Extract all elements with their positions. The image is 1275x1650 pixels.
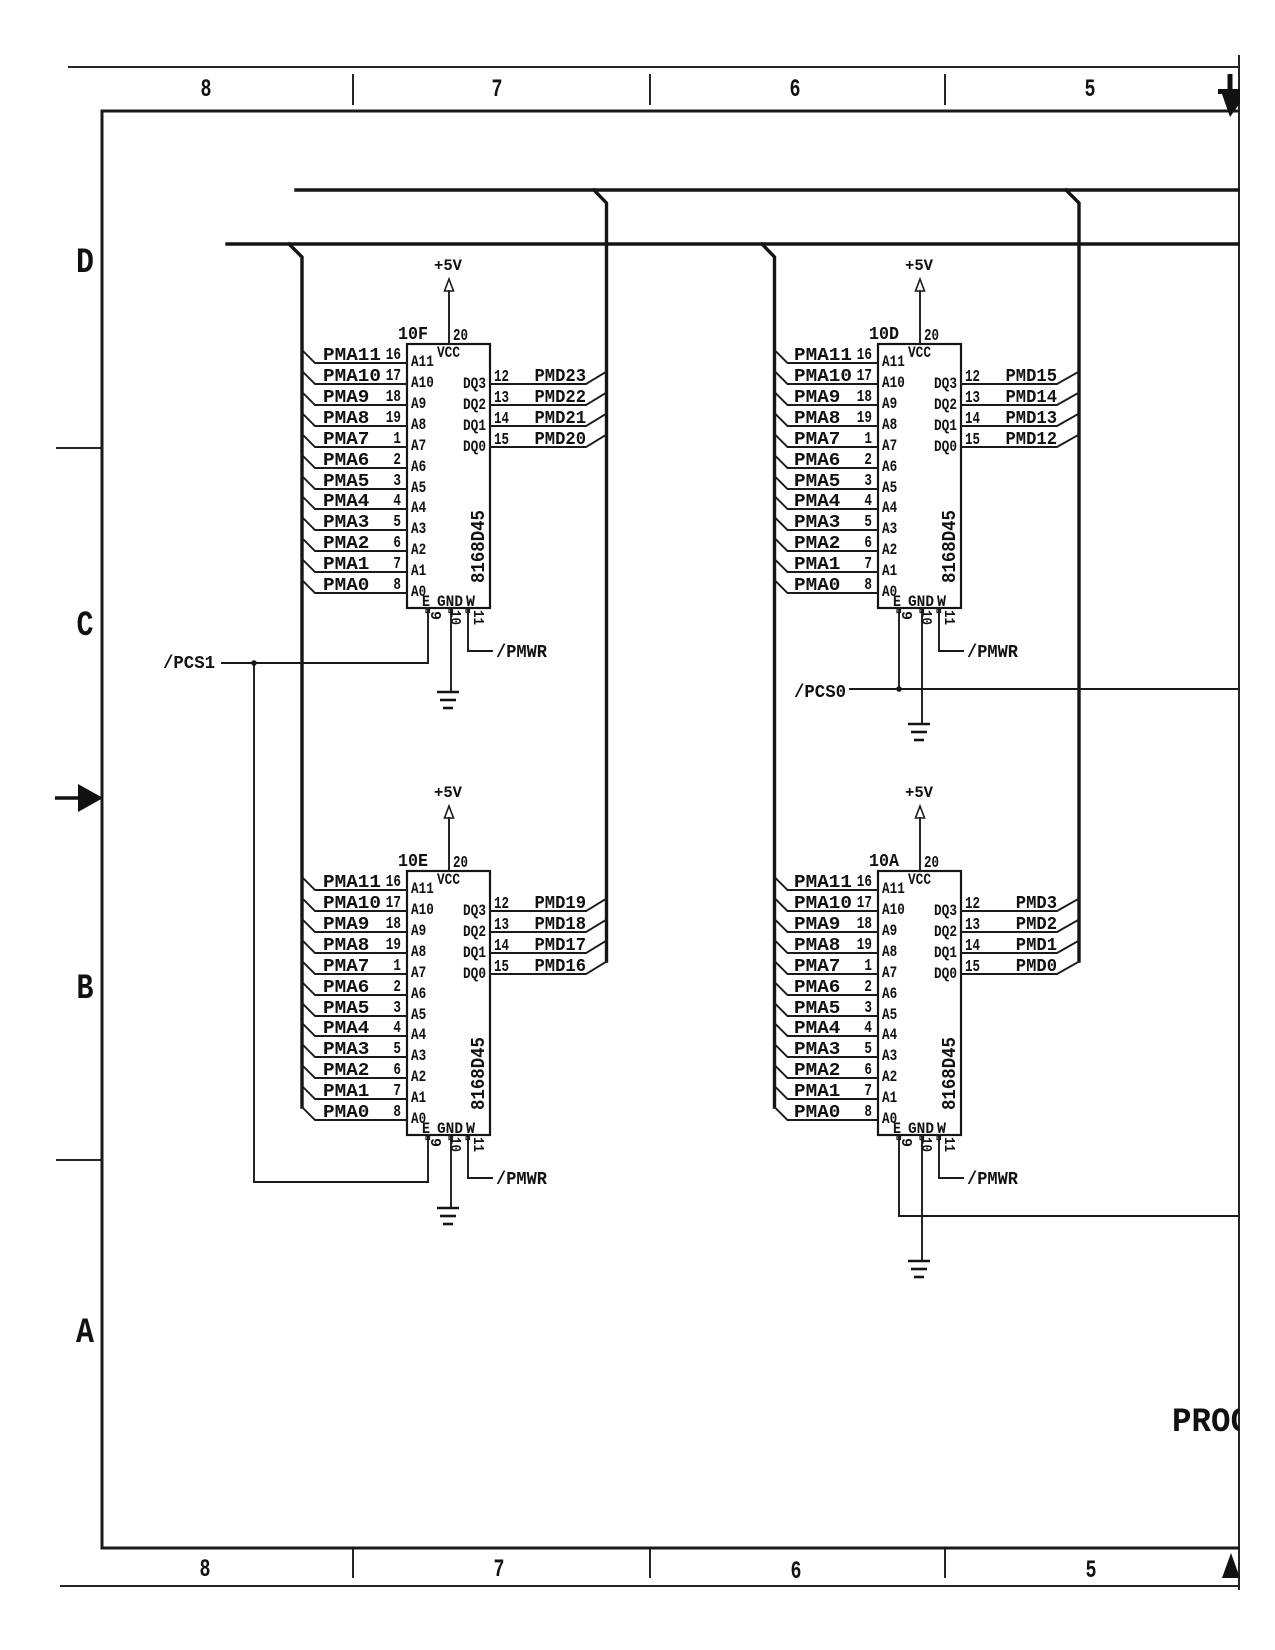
svg-text:6: 6 [393,534,401,553]
svg-text:18: 18 [857,388,872,407]
svg-text:12: 12 [965,368,980,387]
wire PMA11 to 10E pin 16 [302,877,407,890]
svg-text:VCC: VCC [437,871,460,889]
wire 10E pin 14 (DQ1) to net PMD17 [490,941,607,954]
svg-text:17: 17 [857,894,872,913]
svg-text:PMA5: PMA5 [323,999,369,1019]
wire PMA1 to 10F pin 7 [302,559,407,572]
pin stub nubs 10F pins 9,10,11 [426,609,470,613]
svg-text:PMA8: PMA8 [323,936,369,956]
wire PMA7 to 10A pin 1 [775,961,879,974]
wire +5V to 10D pin 20 [919,291,921,344]
svg-text:PMA3: PMA3 [794,513,840,533]
svg-text:A8: A8 [882,416,897,434]
svg-text:PMA3: PMA3 [323,1040,369,1060]
svg-text:PMA3: PMA3 [323,513,369,533]
svg-text:2: 2 [393,978,401,997]
svg-text:16: 16 [857,346,872,365]
bus PMD vertical right column (taps 10D/10A data) [1066,190,1079,961]
svg-text:PMA1: PMA1 [794,1082,841,1102]
svg-text:10F: 10F [398,325,428,345]
svg-text:6: 6 [791,1557,802,1586]
svg-text:6: 6 [864,534,872,553]
svg-text:A1: A1 [882,562,897,580]
svg-text:8: 8 [864,576,872,595]
svg-text:4: 4 [864,492,872,511]
svg-text:PMD13: PMD13 [1006,409,1058,429]
wire 10D pin 14 (DQ1) to net PMD13 [961,414,1079,427]
svg-text:PMA6: PMA6 [794,978,840,998]
svg-text:GND: GND [437,1120,463,1138]
svg-text:PMA11: PMA11 [323,873,381,893]
svg-text:A9: A9 [411,922,426,940]
RAM 10D body [878,344,961,608]
svg-text:DQ3: DQ3 [463,902,486,920]
bus PMA vertical right column (feeds 10D/10A) [762,244,775,1107]
wire PMA2 to 10E pin 6 [302,1065,407,1078]
svg-text:PMA5: PMA5 [794,999,840,1019]
RAM 10F body [407,344,490,608]
svg-text:+5V: +5V [905,257,933,275]
wire PMA7 to 10F pin 1 [302,434,407,447]
svg-text:DQ2: DQ2 [934,396,957,414]
wire /PCS0 branch to 10A pin 9 (E) [899,1135,1238,1216]
svg-text:PMA0: PMA0 [794,576,840,596]
wire PMA1 to 10E pin 7 [302,1086,407,1099]
svg-text:DQ1: DQ1 [934,417,957,435]
svg-text:PMA7: PMA7 [323,957,369,977]
svg-text:17: 17 [857,367,872,386]
svg-text:8: 8 [393,576,401,595]
wire PMA11 to 10F pin 16 [302,350,407,363]
junction /PCS0 [896,686,902,692]
svg-text:PMA5: PMA5 [323,472,369,492]
svg-text:10D: 10D [869,325,899,345]
svg-text:GND: GND [908,593,934,611]
wire PMA0 to 10A pin 8 [775,1107,879,1120]
wire PMA1 to 10A pin 7 [775,1086,879,1099]
wire 10F pin 13 (DQ2) to net PMD22 [490,393,607,406]
svg-text:PMA6: PMA6 [794,451,840,471]
svg-text:10A: 10A [869,852,899,872]
svg-text:/PCS0: /PCS0 [794,683,846,703]
wire PMA8 to 10F pin 19 [302,413,407,426]
svg-text:13: 13 [965,389,980,408]
wire 10F pin 15 (DQ0) to net PMD20 [490,435,607,448]
svg-text:PMA8: PMA8 [794,936,840,956]
bus PMA0-11 horizontal [227,242,1238,245]
wire PMA5 to 10D pin 3 [775,476,879,489]
svg-text:PMA11: PMA11 [323,346,381,366]
svg-text:DQ0: DQ0 [934,438,957,456]
svg-text:8168D45: 8168D45 [939,510,961,583]
svg-text:/PMWR: /PMWR [967,643,1018,663]
wire 10F pin 11 (W) to /PMWR [468,608,492,651]
svg-text:PMD19: PMD19 [535,894,587,914]
svg-text:7: 7 [393,555,401,574]
svg-text:PMA9: PMA9 [323,388,369,408]
svg-text:PMD17: PMD17 [535,936,587,956]
wire PMA11 to 10A pin 16 [775,877,879,890]
svg-text:PMD21: PMD21 [535,409,587,429]
svg-text:19: 19 [857,409,872,428]
svg-text:A7: A7 [882,964,897,982]
svg-text:11: 11 [940,1137,957,1152]
wire PMA4 to 10A pin 4 [775,1023,879,1036]
svg-text:12: 12 [494,895,509,914]
svg-text:14: 14 [494,937,509,956]
wire PMA0 to 10F pin 8 [302,580,407,593]
svg-text:8168D45: 8168D45 [468,510,490,583]
svg-text:A5: A5 [882,479,897,497]
svg-text:3: 3 [864,472,872,491]
svg-text:PMD23: PMD23 [535,367,587,387]
svg-text:12: 12 [965,895,980,914]
svg-text:A6: A6 [411,458,426,476]
svg-text:B: B [77,969,94,1009]
svg-text:1: 1 [864,430,872,449]
wire PMA2 to 10F pin 6 [302,538,407,551]
svg-text:18: 18 [857,915,872,934]
svg-text:17: 17 [386,894,401,913]
wire 10D pin 12 (DQ3) to net PMD15 [961,372,1079,385]
svg-text:PMA2: PMA2 [323,1061,369,1081]
svg-text:PMA6: PMA6 [323,451,369,471]
svg-text:A6: A6 [882,985,897,1003]
svg-text:2: 2 [864,978,872,997]
bus PMD16-23 horizontal (top) [296,188,1238,191]
wire PMA9 to 10E pin 18 [302,919,407,932]
wire PMA5 to 10E pin 3 [302,1003,407,1016]
svg-text:6: 6 [393,1061,401,1080]
svg-text:11: 11 [940,610,957,625]
svg-text:5: 5 [393,1040,401,1059]
wire /PCS0 to 10D pin 9 (E) [850,688,1238,690]
svg-text:+5V: +5V [434,784,462,802]
svg-text:PMA7: PMA7 [323,430,369,450]
svg-text:A: A [76,1313,94,1353]
svg-text:5: 5 [864,513,872,532]
svg-text:18: 18 [386,915,401,934]
svg-text:PMA2: PMA2 [794,534,840,554]
wire PMA8 to 10A pin 19 [775,940,879,953]
svg-text:GND: GND [437,593,463,611]
wire PMA9 to 10A pin 18 [775,919,879,932]
svg-text:DQ2: DQ2 [463,396,486,414]
svg-text:11: 11 [469,1137,486,1152]
svg-text:3: 3 [864,999,872,1018]
wire PMA6 to 10E pin 2 [302,982,407,995]
svg-text:13: 13 [965,916,980,935]
svg-text:8: 8 [864,1103,872,1122]
svg-text:A4: A4 [882,499,898,517]
svg-text:A2: A2 [411,1068,426,1086]
power symbol +5V (10A) [905,784,933,818]
wire PMA5 to 10F pin 3 [302,476,407,489]
svg-text:A2: A2 [882,541,897,559]
wire /PCS1 branch to 10E pin 9 (E) [254,663,428,1182]
wire PMA10 to 10F pin 17 [302,371,407,384]
svg-text:A11: A11 [411,353,434,371]
svg-text:6: 6 [864,1061,872,1080]
svg-text:A10: A10 [882,374,905,392]
wire 10E pin 15 (DQ0) to net PMD16 [490,962,607,975]
svg-text:7: 7 [864,555,872,574]
power symbol +5V (10D) [905,257,933,291]
ground symbol (10F) [437,692,459,708]
svg-text:A5: A5 [411,1006,426,1024]
svg-text:DQ1: DQ1 [463,944,486,962]
wire PMA3 to 10F pin 5 [302,517,407,530]
wire PMA3 to 10D pin 5 [775,517,879,530]
svg-text:10E: 10E [398,852,428,872]
title text PROGRAM (clipped at frame edge) [1172,1404,1275,1442]
wire PMA0 to 10D pin 8 [775,580,879,593]
wire PMA10 to 10D pin 17 [775,371,879,384]
svg-text:PMA9: PMA9 [794,388,840,408]
svg-text:8: 8 [393,1103,401,1122]
wire PMA6 to 10F pin 2 [302,455,407,468]
svg-text:1: 1 [393,430,401,449]
svg-text:DQ0: DQ0 [463,965,486,983]
wire PMA2 to 10D pin 6 [775,538,879,551]
svg-text:PMA10: PMA10 [794,894,852,914]
wire 10A pin 11 (W) to /PMWR [939,1135,963,1178]
svg-text:DQ2: DQ2 [463,923,486,941]
svg-text:PMA4: PMA4 [323,1019,370,1039]
wire 10D pin 10 to ground [921,608,923,724]
svg-text:8168D45: 8168D45 [939,1037,961,1110]
svg-text:A8: A8 [882,943,897,961]
svg-text:17: 17 [386,367,401,386]
svg-text:8168D45: 8168D45 [468,1037,490,1110]
wire 10D pin 15 (DQ0) to net PMD12 [961,435,1079,448]
svg-text:15: 15 [494,431,509,450]
wire +5V to 10A pin 20 [919,818,921,871]
svg-text:DQ0: DQ0 [463,438,486,456]
svg-text:D: D [76,243,94,283]
svg-text:A9: A9 [411,395,426,413]
junction /PCS1 [251,660,257,666]
wire PMA6 to 10D pin 2 [775,455,879,468]
svg-text:3: 3 [393,999,401,1018]
svg-text:8: 8 [201,75,212,104]
svg-text:PMD0: PMD0 [1016,957,1057,977]
svg-text:PMA2: PMA2 [323,534,369,554]
svg-text:PMA1: PMA1 [323,555,370,575]
svg-text:5: 5 [393,513,401,532]
bus PMA vertical left column (feeds 10F/10E) [289,244,302,1107]
svg-text:PMA6: PMA6 [323,978,369,998]
wire PMA4 to 10D pin 4 [775,496,879,509]
svg-text:A7: A7 [882,437,897,455]
svg-text:2: 2 [864,451,872,470]
svg-text:PMA10: PMA10 [323,367,381,387]
wire PMA7 to 10E pin 1 [302,961,407,974]
wire +5V to 10E pin 20 [448,818,450,871]
svg-text:A10: A10 [882,901,905,919]
wire PMA11 to 10D pin 16 [775,350,879,363]
svg-text:PMA4: PMA4 [323,492,370,512]
svg-text:PMA1: PMA1 [794,555,841,575]
svg-text:13: 13 [494,389,509,408]
svg-text:PMA0: PMA0 [323,576,369,596]
ground symbol (10A) [908,1261,930,1277]
svg-text:19: 19 [386,936,401,955]
wire 10F pin 12 (DQ3) to net PMD23 [490,372,607,385]
svg-text:PMA8: PMA8 [794,409,840,429]
wire /PCS1 to 10F pin 9 (E) [222,608,428,663]
svg-text:14: 14 [965,410,980,429]
svg-text:PMA0: PMA0 [794,1103,840,1123]
wire 10A pin 12 (DQ3) to net PMD3 [961,899,1079,912]
svg-text:4: 4 [393,1019,401,1038]
svg-text:VCC: VCC [437,344,460,362]
svg-text:20: 20 [453,854,468,873]
svg-text:/PMWR: /PMWR [496,1170,547,1190]
svg-text:1: 1 [393,957,401,976]
svg-text:PMD20: PMD20 [535,430,587,450]
wire PMA10 to 10E pin 17 [302,898,407,911]
power symbol +5V (10F) [434,257,462,291]
wire PMA0 to 10E pin 8 [302,1107,407,1120]
svg-text:A4: A4 [411,499,427,517]
svg-text:3: 3 [393,472,401,491]
wire 10A pin 15 (DQ0) to net PMD0 [961,962,1079,975]
svg-text:GND: GND [908,1120,934,1138]
svg-text:7: 7 [393,1082,401,1101]
svg-text:DQ2: DQ2 [934,923,957,941]
svg-text:18: 18 [386,388,401,407]
svg-text:A8: A8 [411,416,426,434]
svg-text:16: 16 [386,873,401,892]
svg-text:VCC: VCC [908,344,931,362]
svg-text:11: 11 [469,610,486,625]
svg-text:DQ3: DQ3 [934,902,957,920]
svg-text:PMA11: PMA11 [794,873,852,893]
svg-text:A8: A8 [411,943,426,961]
svg-text:A5: A5 [882,1006,897,1024]
svg-text:4: 4 [864,1019,872,1038]
svg-text:A3: A3 [411,1047,426,1065]
svg-text:PMD3: PMD3 [1016,894,1057,914]
svg-text:A4: A4 [882,1026,898,1044]
wire 10E pin 13 (DQ2) to net PMD18 [490,920,607,933]
svg-text:DQ3: DQ3 [463,375,486,393]
svg-text:PMA8: PMA8 [323,409,369,429]
svg-text:A6: A6 [411,985,426,1003]
wire 10A pin 13 (DQ2) to net PMD2 [961,920,1079,933]
wire 10D pin 9 stub [898,608,900,689]
svg-text:PMD14: PMD14 [1006,388,1058,408]
svg-text:20: 20 [924,854,939,873]
wire PMA8 to 10D pin 19 [775,413,879,426]
pin stub nubs 10A pins 9,10,11 [897,1136,941,1140]
svg-text:DQ1: DQ1 [934,944,957,962]
wire PMA4 to 10F pin 4 [302,496,407,509]
svg-text:A1: A1 [411,562,426,580]
svg-text:A2: A2 [411,541,426,559]
svg-text:A1: A1 [882,1089,897,1107]
svg-text:PMA2: PMA2 [794,1061,840,1081]
svg-text:PMA4: PMA4 [794,492,841,512]
svg-text:15: 15 [965,958,980,977]
svg-text:/PMWR: /PMWR [496,643,547,663]
svg-text:A5: A5 [411,479,426,497]
svg-text:A7: A7 [411,437,426,455]
svg-text:13: 13 [494,916,509,935]
ground symbol (10E) [437,1208,459,1224]
wire 10F pin 10 to ground [450,608,452,692]
svg-text:DQ0: DQ0 [934,965,957,983]
wire 10A pin 10 to ground [921,1135,923,1261]
svg-text:15: 15 [965,431,980,450]
pin stub nubs 10E pins 9,10,11 [426,1136,470,1140]
svg-text:PMA7: PMA7 [794,430,840,450]
svg-text:PMA5: PMA5 [794,472,840,492]
wire 10E pin 11 (W) to /PMWR [468,1135,492,1178]
wire 10D pin 11 (W) to /PMWR [939,608,963,651]
ground symbol (10D) [908,724,930,740]
svg-text:1: 1 [864,957,872,976]
svg-text:14: 14 [965,937,980,956]
svg-text:5: 5 [1085,75,1096,104]
svg-text:12: 12 [494,368,509,387]
svg-text:PMD15: PMD15 [1006,367,1058,387]
RAM 10E body [407,871,490,1135]
svg-text:PMA10: PMA10 [323,894,381,914]
pin stub nubs 10D pins 9,10,11 [897,609,941,613]
svg-text:VCC: VCC [908,871,931,889]
svg-text:A2: A2 [882,1068,897,1086]
svg-text:A3: A3 [882,520,897,538]
svg-text:PMD22: PMD22 [535,388,587,408]
svg-text:8: 8 [200,1555,211,1584]
svg-text:DQ3: DQ3 [934,375,957,393]
svg-text:PMA3: PMA3 [794,1040,840,1060]
svg-text:PMD2: PMD2 [1016,915,1057,935]
svg-text:16: 16 [857,873,872,892]
RAM 10A body [878,871,961,1135]
wire PMA5 to 10A pin 3 [775,1003,879,1016]
svg-text:14: 14 [494,410,509,429]
wire +5V to 10F pin 20 [448,291,450,344]
svg-text:A10: A10 [411,374,434,392]
svg-text:PMA10: PMA10 [794,367,852,387]
svg-text:A9: A9 [882,922,897,940]
svg-text:A11: A11 [882,353,905,371]
svg-text:4: 4 [393,492,401,511]
svg-text:20: 20 [453,327,468,346]
svg-text:5: 5 [1086,1556,1097,1585]
svg-text:7: 7 [492,75,503,104]
bus PMD vertical left column (taps 10F/10E data) [594,190,607,961]
wire PMA3 to 10E pin 5 [302,1044,407,1057]
wire PMA9 to 10F pin 18 [302,392,407,405]
svg-text:7: 7 [864,1082,872,1101]
svg-text:A7: A7 [411,964,426,982]
wire PMA4 to 10E pin 4 [302,1023,407,1036]
svg-text:A10: A10 [411,901,434,919]
svg-text:PMD16: PMD16 [535,957,587,977]
svg-text:PMA9: PMA9 [323,915,369,935]
svg-text:A11: A11 [411,880,434,898]
wire PMA8 to 10E pin 19 [302,940,407,953]
svg-text:A11: A11 [882,880,905,898]
wire 10E pin 10 to ground [450,1135,452,1208]
svg-text:PMA0: PMA0 [323,1103,369,1123]
svg-text:PMA4: PMA4 [794,1019,841,1039]
